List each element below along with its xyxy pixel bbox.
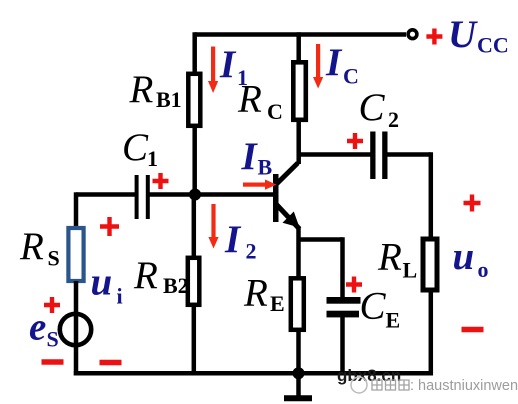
- svg-text:B: B: [258, 155, 273, 180]
- svg-text:S: S: [48, 246, 60, 271]
- svg-text:I: I: [325, 41, 343, 84]
- svg-text:e: e: [29, 306, 46, 349]
- svg-text:C: C: [359, 86, 386, 129]
- svg-text:S: S: [47, 327, 59, 352]
- svg-text:I: I: [241, 135, 259, 178]
- svg-text:C: C: [122, 126, 149, 169]
- svg-text:: haustniuxinwen: : haustniuxinwen: [410, 378, 518, 394]
- svg-text:u: u: [453, 235, 475, 278]
- svg-text:R: R: [377, 236, 402, 279]
- svg-text:C: C: [360, 285, 387, 328]
- svg-text:I: I: [224, 218, 242, 261]
- svg-text:1: 1: [237, 65, 248, 90]
- svg-text:B2: B2: [163, 273, 189, 298]
- svg-text:gbx8.cn: gbx8.cn: [337, 366, 401, 385]
- svg-text:B1: B1: [156, 87, 182, 112]
- svg-text:L: L: [403, 258, 418, 283]
- svg-text:I: I: [219, 43, 237, 86]
- svg-text:C: C: [343, 64, 359, 89]
- svg-text:u: u: [91, 261, 113, 304]
- svg-text:R: R: [19, 225, 44, 268]
- svg-text:o: o: [478, 257, 489, 282]
- svg-text:E: E: [270, 291, 285, 316]
- svg-text:CC: CC: [477, 33, 509, 58]
- svg-text:R: R: [129, 68, 154, 111]
- svg-text:U: U: [448, 13, 478, 56]
- svg-text:2: 2: [246, 239, 257, 264]
- svg-text:i: i: [117, 284, 123, 309]
- svg-text:C: C: [267, 99, 283, 124]
- svg-text:1: 1: [147, 146, 158, 171]
- svg-text:E: E: [386, 308, 401, 333]
- svg-text:R: R: [133, 254, 158, 297]
- svg-text:2: 2: [388, 107, 399, 132]
- svg-text:R: R: [243, 272, 268, 315]
